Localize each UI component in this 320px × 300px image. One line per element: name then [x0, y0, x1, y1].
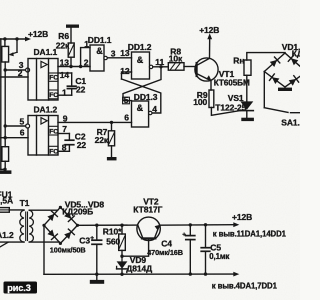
svg-text:3: 3	[111, 48, 116, 58]
supply bar above R6	[66, 25, 79, 28]
wire input 5	[5, 125, 26, 127]
wire VT1 emitter	[197, 74, 211, 90]
wire R9 to gate	[211, 108, 240, 116]
svg-text:к выв.11DA1,14DD1: к выв.11DA1,14DD1	[213, 230, 287, 239]
capacitor C3 plates	[92, 239, 102, 241]
resistor R1 (trimmer)	[2, 46, 9, 62]
svg-text:С5: С5	[210, 242, 221, 252]
svg-text:2: 2	[18, 68, 23, 78]
capacitor C2 plates	[65, 139, 74, 141]
wire R8 to base	[184, 66, 196, 68]
wire pin1 stub	[58, 94, 72, 96]
svg-text:+: +	[90, 235, 94, 242]
ground bar left	[0, 170, 11, 174]
node C4 bottom	[189, 272, 192, 275]
wire VT2 collector	[138, 225, 143, 237]
wire pin1 riser	[81, 48, 90, 67]
bridge VD5-VD8 arm TR	[60, 207, 77, 225]
svg-text:Т122-25: Т122-25	[215, 103, 246, 113]
diode VD8	[64, 232, 71, 239]
svg-text:0,1мк: 0,1мк	[209, 252, 229, 261]
node C4 top	[189, 223, 192, 226]
switch SA1.2 blade	[0, 242, 8, 247]
op-amp DA1.2 body	[28, 116, 58, 156]
svg-text:DD1.1: DD1.1	[88, 35, 112, 45]
resistor R7	[108, 131, 114, 146]
node pin1 riser junction	[79, 65, 82, 68]
wire C2 bottom stem	[68, 145, 70, 152]
svg-text:100: 100	[193, 97, 207, 107]
svg-text:470мк/16В: 470мк/16В	[147, 248, 183, 257]
wire pin8 stub	[58, 150, 69, 152]
wire C5 bottom stem	[205, 251, 207, 274]
wire DD1.1 out	[107, 57, 131, 59]
node C5 bottom	[204, 272, 207, 275]
svg-text:Д814Д: Д814Д	[126, 264, 152, 274]
pin circle input 3	[26, 68, 30, 72]
svg-text:12: 12	[120, 66, 130, 76]
arrow VT1 emitter	[206, 75, 211, 80]
svg-text:R10*: R10*	[103, 227, 122, 237]
svg-text:8: 8	[62, 142, 67, 152]
wire ground tie to left line	[1, 168, 5, 170]
svg-text:С3: С3	[79, 236, 90, 246]
capacitor C1 plates	[67, 85, 76, 87]
resistor R2 lower-left	[2, 147, 9, 162]
gate DD1.2 body	[132, 52, 150, 79]
resistor R10	[119, 234, 126, 250]
svg-text:DA1.2: DA1.2	[34, 105, 58, 115]
wire T1 secondary bottom	[29, 241, 59, 243]
wire R10 top stem	[121, 225, 123, 234]
op-amp DA1.2 inner line	[36, 116, 38, 156]
arrow +12V out	[233, 222, 239, 227]
ground bar R7	[107, 157, 117, 160]
bridge VD1-VD4 arm TR	[285, 53, 300, 66]
svg-text:22к: 22к	[95, 135, 109, 145]
wire pin7 stub	[58, 133, 69, 135]
transformer T1 primary	[20, 210, 24, 242]
arrow wiper head	[9, 52, 14, 56]
pin circle DD1.3 out	[149, 111, 152, 114]
wire C3 bottom stem	[96, 244, 98, 274]
node R7 junction	[110, 121, 113, 124]
wire R2 bottom	[4, 161, 6, 170]
wire Rn top	[247, 53, 285, 60]
svg-text:22: 22	[76, 85, 86, 95]
gate DD1.3 body	[132, 101, 149, 127]
svg-text:2: 2	[84, 57, 89, 67]
diode VD1	[270, 60, 277, 67]
diode VD7	[47, 230, 54, 237]
wire VS1 cathode	[246, 111, 248, 118]
wire divider chain	[4, 62, 6, 147]
node rail-pot junction	[3, 37, 6, 40]
node bridge2 left	[42, 224, 45, 227]
transformer T1 core	[25, 212, 27, 241]
wire VD9 cathode	[121, 269, 123, 274]
pin circle input 5	[26, 124, 30, 128]
resistor R8	[168, 63, 184, 70]
resistor Rn	[244, 60, 251, 75]
wire +12V out rail	[160, 224, 234, 227]
node bridge2 right	[76, 224, 79, 227]
svg-text:DD1.2: DD1.2	[128, 42, 152, 52]
node C5 top	[204, 223, 207, 226]
wire +12V rail top-left	[0, 38, 28, 40]
wire bottom rail	[44, 273, 234, 275]
wire bridge2 minus down	[43, 225, 45, 274]
arrow collector +12V	[207, 33, 212, 39]
svg-text:22: 22	[77, 140, 87, 150]
node input3 branch	[3, 68, 6, 71]
node input5 branch	[3, 124, 6, 127]
svg-text:5: 5	[20, 117, 25, 127]
bridge VD1-VD4 arm TL	[264, 53, 285, 72]
wire T1 secondary top	[29, 209, 57, 211]
resistor R6	[68, 43, 74, 57]
transistor VT2 base bar	[142, 237, 155, 239]
op-amp DA1.2 triangle	[41, 118, 47, 124]
svg-text:DD1.3: DD1.3	[134, 92, 158, 102]
wire pin13 DA1.1	[58, 66, 90, 68]
svg-text:SA1.2: SA1.2	[0, 230, 14, 240]
ground bar bridge1	[278, 88, 292, 91]
wire C4 top stem	[189, 225, 191, 236]
wire input 6	[1, 137, 28, 139]
op-amp DA1.1 body	[28, 59, 58, 101]
pin5 box	[123, 97, 130, 104]
op-amp DA1.2 inner column	[48, 116, 50, 156]
wire VT2 base stem	[122, 240, 149, 257]
wire C1 bottom stem	[71, 89, 73, 96]
wire C1 top stem	[71, 73, 73, 86]
wire fuse to T1	[9, 209, 24, 211]
diode VD5	[47, 214, 54, 221]
svg-text:1: 1	[84, 39, 89, 49]
diode VD3	[272, 77, 280, 84]
wire pin12 stub	[122, 72, 132, 79]
svg-text:6: 6	[20, 127, 25, 137]
switch SA1.1 blade	[264, 108, 288, 113]
wire R6 bottom stem	[70, 57, 72, 66]
transformer T1 secondary	[29, 210, 33, 242]
arrow bottom rail	[233, 272, 239, 277]
svg-text:FC: FC	[49, 92, 58, 99]
op-amp DA1.1 inner line	[36, 59, 38, 101]
svg-text:КТ817Г: КТ817Г	[133, 204, 162, 214]
capacitor C4 plates	[186, 235, 195, 237]
svg-text:10к: 10к	[169, 53, 183, 63]
svg-text:14: 14	[60, 70, 70, 80]
wire T1 primary bottom	[0, 241, 24, 243]
wire VS1 anode	[246, 75, 248, 101]
node R10 top	[120, 224, 123, 227]
cell FC top DA1.1	[49, 73, 59, 81]
wire R10 bottom stem	[121, 250, 123, 256]
svg-text:VS1: VS1	[228, 93, 244, 103]
svg-text:FC: FC	[49, 148, 58, 155]
op-amp DA1.1 triangle	[41, 61, 47, 67]
wire out9-pin6 bus	[58, 121, 132, 123]
node base-zener	[120, 255, 123, 258]
bridge VD5-VD8 arm BL	[44, 225, 60, 243]
node ground branch	[3, 168, 6, 171]
diode VD4	[289, 79, 297, 86]
pin circle DD1.2 out	[149, 65, 152, 68]
thyristor VS1	[240, 101, 253, 109]
wire input 2	[1, 76, 28, 78]
svg-text:&: &	[137, 55, 144, 65]
svg-text:+12В: +12В	[199, 25, 219, 35]
cell FC top DA1.2	[49, 126, 59, 135]
svg-text:КД209Б: КД209Б	[62, 206, 93, 216]
node rail-wiper junction	[15, 37, 18, 40]
ground bar bottom rail	[90, 280, 104, 284]
bridge VD1-VD4 arm BL	[264, 72, 285, 88]
svg-text:13: 13	[60, 57, 70, 67]
wire SA1.1 right	[291, 112, 301, 114]
resistor R9	[209, 90, 214, 108]
svg-text:22к: 22к	[56, 41, 70, 51]
svg-text:6: 6	[124, 112, 129, 122]
cell FC bottom DA1.2	[49, 146, 59, 155]
svg-text:560: 560	[106, 236, 120, 246]
wire wiper stem	[16, 39, 18, 52]
wire pin14 stub	[58, 72, 72, 74]
transistor VT1 circle	[195, 58, 218, 81]
node R6 junction	[69, 65, 72, 68]
svg-text:&: &	[96, 46, 103, 56]
svg-text:КД202: КД202	[292, 49, 300, 59]
svg-text:+12В: +12В	[232, 212, 252, 222]
svg-text:SA1.1: SA1.1	[281, 117, 300, 127]
node out11 junction	[159, 65, 162, 68]
svg-text:Т1: Т1	[20, 198, 30, 208]
wire left vertical	[0, 39, 2, 169]
node bridge2 top	[59, 206, 62, 209]
node bridge2 bottom	[59, 242, 62, 245]
wire C4 bottom stem	[189, 240, 191, 275]
wire C3 top stem	[96, 225, 98, 240]
wire bridge to switch	[263, 72, 265, 108]
svg-text:&: &	[137, 103, 144, 113]
svg-text:0,5А: 0,5А	[0, 196, 13, 206]
svg-text:5: 5	[124, 95, 129, 105]
svg-text:FC: FC	[49, 128, 58, 135]
wire 11 to pin5 of DD1.3	[123, 67, 161, 101]
wire VT1 collector	[197, 37, 210, 66]
svg-text:к выв.4DA1,7DD1: к выв.4DA1,7DD1	[212, 281, 278, 290]
wire input 3	[5, 69, 26, 71]
wire pot top stem	[4, 39, 6, 46]
transistor VT2 circle	[137, 217, 160, 240]
node C3 top	[95, 224, 98, 227]
wire R7 top stem	[111, 122, 113, 130]
svg-text:рис.3: рис.3	[7, 283, 31, 293]
wire bridge2 plus rail	[78, 224, 138, 226]
gate DD1.1 body	[90, 45, 104, 71]
transistor VT1 base bar	[196, 63, 198, 76]
svg-text:7: 7	[62, 124, 67, 134]
node VD9 bottom	[120, 273, 123, 276]
bridge VD1-VD4 arm BR	[285, 76, 300, 87]
wire R7 bottom stem	[111, 146, 113, 157]
svg-text:1: 1	[62, 87, 67, 97]
figure label box	[4, 282, 38, 294]
op-amp DA1.1 inner column	[48, 59, 50, 101]
svg-text:+12В: +12В	[28, 29, 48, 39]
zener VD9	[121, 256, 123, 261]
svg-text:4: 4	[152, 104, 157, 114]
arrow +12V top-left	[25, 37, 31, 42]
wire R6 top stem	[70, 28, 72, 43]
svg-text:КТ605БМ: КТ605БМ	[214, 78, 250, 87]
cell FC bottom DA1.1	[49, 90, 59, 99]
arrow VT2 emitter	[155, 225, 160, 230]
wire VT2 emitter	[155, 225, 160, 237]
ground bar VS1	[241, 118, 254, 121]
wire 12 to pin4 of DD1.3	[122, 79, 161, 113]
svg-text:100мк/50В: 100мк/50В	[50, 246, 86, 255]
wire C5 top stem	[205, 225, 207, 248]
wire C2 top stem	[68, 134, 70, 141]
svg-text:FC: FC	[49, 75, 58, 82]
fuse FU1	[0, 208, 9, 213]
diode VD6	[64, 212, 71, 219]
svg-text:9: 9	[63, 113, 68, 123]
svg-text:Rн: Rн	[233, 55, 244, 65]
capacitor C5 plates	[201, 247, 210, 249]
pin circle DD1.1 out	[104, 56, 107, 59]
node input6 branch	[3, 136, 6, 139]
wire DD1.2 out	[153, 66, 169, 68]
svg-text:DA1.1: DA1.1	[34, 47, 58, 57]
wire wiper arm	[10, 52, 17, 54]
bridge VD5-VD8 arm BR	[60, 225, 77, 243]
diode VD2	[291, 58, 298, 65]
node C3 bottom	[95, 273, 98, 276]
wire ground stem bottom	[96, 274, 98, 280]
bridge VD5-VD8 arm TL	[44, 207, 60, 225]
